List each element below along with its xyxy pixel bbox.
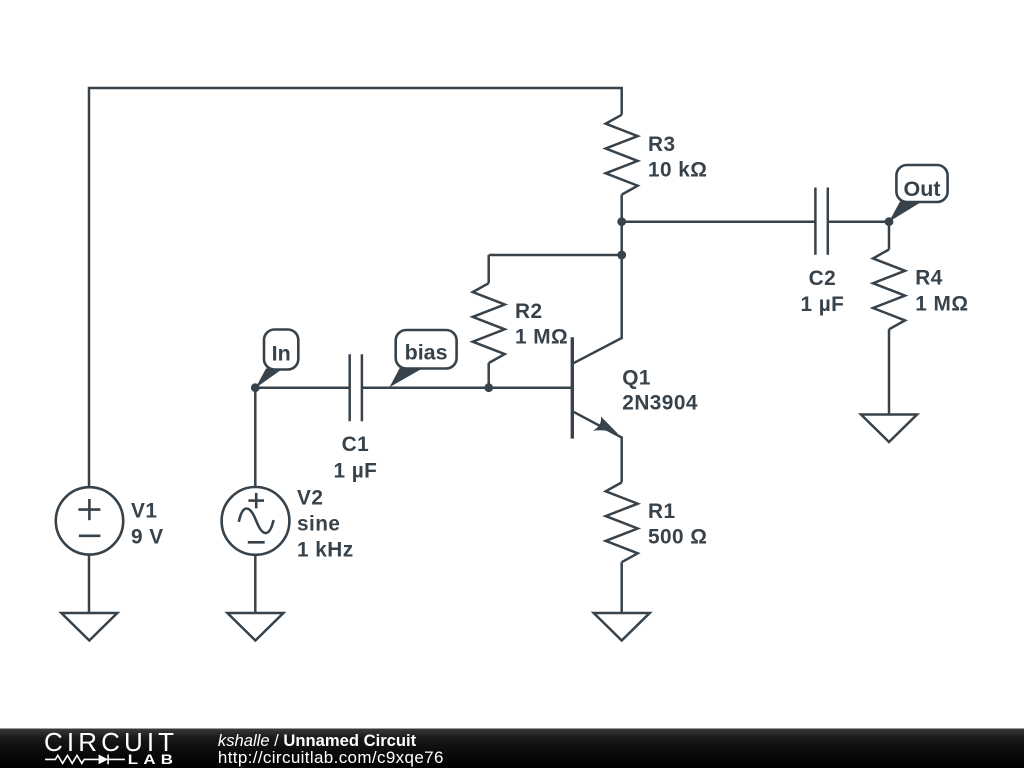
svg-text:In: In xyxy=(272,342,291,366)
svg-text:sine: sine xyxy=(297,513,340,536)
svg-text:C1: C1 xyxy=(342,433,370,456)
svg-text:9 V: 9 V xyxy=(131,526,164,549)
svg-text:Out: Out xyxy=(903,177,940,201)
svg-text:Q1: Q1 xyxy=(622,366,651,389)
svg-text:V1: V1 xyxy=(131,500,157,523)
svg-text:1 µF: 1 µF xyxy=(800,293,844,316)
svg-text:2N3904: 2N3904 xyxy=(622,392,698,415)
svg-text:V2: V2 xyxy=(297,487,323,510)
svg-text:1 kHz: 1 kHz xyxy=(297,538,354,561)
svg-text:R2: R2 xyxy=(515,300,543,323)
svg-text:kshalle / Unnamed Circuit: kshalle / Unnamed Circuit xyxy=(218,731,417,750)
svg-text:C2: C2 xyxy=(809,267,837,290)
svg-text:R3: R3 xyxy=(648,133,676,156)
svg-text:10 kΩ: 10 kΩ xyxy=(648,159,707,182)
svg-text:bias: bias xyxy=(405,341,448,365)
svg-text:1 MΩ: 1 MΩ xyxy=(515,326,568,349)
svg-text:1 µF: 1 µF xyxy=(333,459,377,482)
svg-text:R1: R1 xyxy=(648,500,676,523)
svg-text:1 MΩ: 1 MΩ xyxy=(915,292,968,315)
svg-text:LAB: LAB xyxy=(128,753,178,768)
svg-text:500 Ω: 500 Ω xyxy=(648,526,707,549)
svg-text:http://circuitlab.com/c9xqe76: http://circuitlab.com/c9xqe76 xyxy=(218,748,444,767)
svg-text:R4: R4 xyxy=(915,267,943,290)
